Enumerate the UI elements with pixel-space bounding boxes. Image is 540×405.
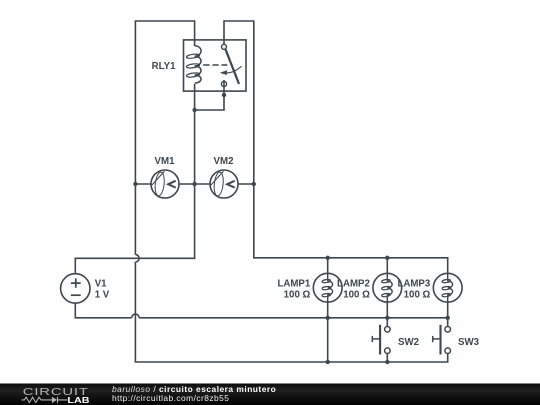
relay RLY1 coil [195,46,201,83]
junction: VM2 right [252,182,256,186]
wire: V1 plus terminal to node at x=194.6 and up to relay coil bottom [75,84,194,274]
lamp LAMP3 filament loop ellipses [442,279,451,283]
lamp LAMP3 body circle [433,273,462,302]
voltmeter VM1 needle [151,171,165,186]
voltmeter VM2 needle [210,171,224,186]
lamp LAMP1 filament loop ellipses [322,279,331,283]
pushbutton SW2 bottom pin circle [385,348,391,354]
wire: SW2 terminal stubs [386,318,388,362]
svg-text:V1: V1 [95,279,107,290]
wire: V1 minus terminal right along lamp bottom bus (hop at x=135.4) [75,303,447,326]
lamp LAMP1 filament coil [328,273,333,302]
voltmeter VM1 chevron mark [168,181,176,188]
lamp LAMP2 filament loop ellipses [381,279,390,283]
svg-text:VM1: VM1 [155,156,176,167]
lamp LAMP2 [373,273,402,302]
relay RLY1 top pin circle [222,44,227,49]
svg-text:RLY1: RLY1 [152,61,176,72]
svg-text:100 Ω: 100 Ω [404,289,431,300]
junction: SW2 bottom [385,360,389,364]
relay RLY1 arrow arc [227,66,242,73]
junction: LAMP1 bottom [326,316,330,320]
svg-text:VM2: VM2 [214,156,234,167]
lamp LAMP1 [313,273,342,302]
junction: bottom bus at x=327.7 [326,360,330,364]
wire: link between lamp bottom bus and bottom bus [327,318,329,362]
lamp LAMP2 filament coil [387,273,392,302]
junction: LAMP2 bottom / SW2 top [385,316,389,320]
wire: LAMP3 bottom vertical [447,302,449,318]
lamp LAMP3 filament coil [448,273,453,302]
wire hop: lamp bottom bus over left rail at (135.4,317.8) [132,314,139,318]
pushbutton SW2 bar [379,325,381,355]
junction: VM1 left [133,182,137,186]
junction: coil bottom / switch bottom [192,108,196,112]
svg-text:LAMP2: LAMP2 [337,279,370,290]
footer logo resistor zigzag [22,397,52,402]
wire: relay switch top to right rail, down, and lamp top bus [224,21,448,273]
pushbutton SW3 bar [439,325,441,355]
relay RLY1 bottom pin circle [221,81,226,86]
voltage source V1 body circle [61,274,90,303]
svg-text:http://circuitlab.com/cr8zb55: http://circuitlab.com/cr8zb55 [112,393,229,403]
svg-text:LAMP3: LAMP3 [397,279,430,290]
voltmeter VM1 [151,170,179,198]
svg-text:1 V: 1 V [95,289,110,300]
wire: LAMP2 terminals verticals [386,258,388,318]
wire: relay switch bottom pin down and left to coil-bottom node [195,80,224,110]
pushbutton SW3 plunger cap [432,336,434,342]
svg-text:LAB: LAB [67,396,89,405]
pushbutton SW3 bottom pin circle [445,348,451,354]
wire: coil-top loop (coil top to left vertical rail, down to bottom bus, right to SW3 bottom) [135,21,447,362]
voltmeter VM2 body circle [210,170,238,198]
lamp LAMP3 [433,273,462,302]
pushbutton SW3 plunger stem [433,338,440,340]
junction: VM1 right / VM2 left [192,182,196,186]
pushbutton SW3 top pin circle [445,327,451,333]
voltage source V1 plus sign [71,278,81,287]
junction: relay switch pin [222,93,226,97]
voltmeter VM2 gauge oval [213,172,224,197]
footer logo diode [52,397,57,403]
svg-text:LAMP1: LAMP1 [277,279,310,290]
junction: LAMP3 bottom / SW3 top [446,316,450,320]
svg-text:SW3: SW3 [458,337,480,348]
pushbutton SW2 plunger stem [372,338,379,340]
voltmeter VM1 gauge oval [154,172,165,197]
relay RLY1 coil loop ellipses [186,53,200,59]
relay RLY1 dashed actuation line [203,64,227,66]
relay RLY1 [184,40,247,91]
wire hop: left rail over V1 top wire at (135.4,258.3) [135,255,139,262]
relay RLY1 box [184,40,247,91]
voltmeter VM1 body circle [151,170,179,198]
voltage source V1 minus sign [71,294,81,296]
lamp LAMP1 body circle [313,273,342,302]
svg-text:100 Ω: 100 Ω [284,289,311,300]
svg-text:SW2: SW2 [398,337,419,348]
pushbutton SW2 plunger cap [371,336,373,342]
junction: LAMP1 top [326,256,330,260]
wire: LAMP1 terminals verticals [327,258,329,318]
relay RLY1 switch blade [226,49,240,84]
wire: voltmeter bus segments at y=184 [135,183,253,185]
relay RLY1 arrowhead [220,70,228,75]
voltage source V1 [61,274,90,303]
pushbutton SW2 [372,325,390,355]
pushbutton SW3 [433,325,451,355]
lamp LAMP2 body circle [373,273,402,302]
junction: LAMP2 top [385,256,389,260]
pushbutton SW2 top pin circle [385,327,391,333]
svg-text:100 Ω: 100 Ω [343,289,370,300]
voltmeter VM2 [210,170,238,198]
voltmeter VM2 chevron mark [227,181,235,188]
